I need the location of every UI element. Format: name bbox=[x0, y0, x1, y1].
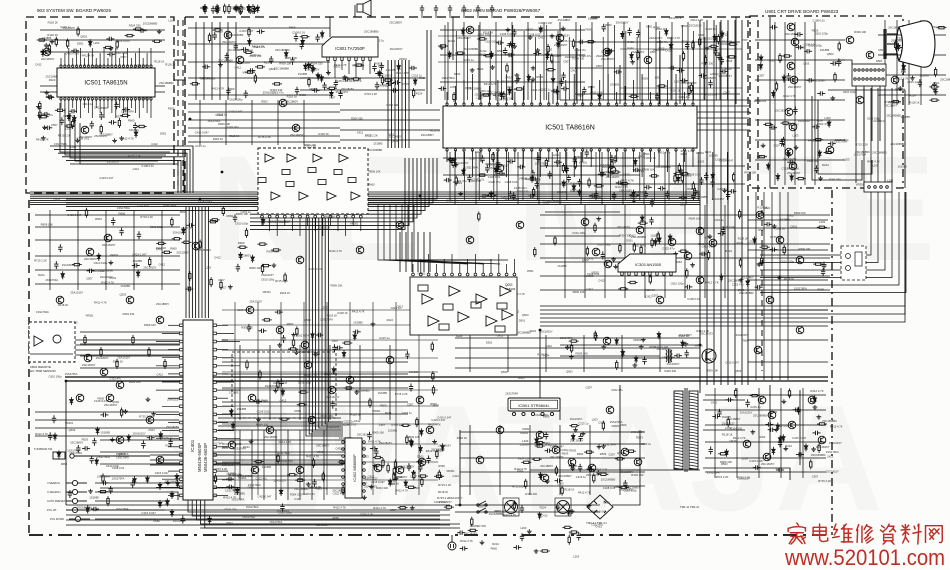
svg-text:R909 10K: R909 10K bbox=[144, 323, 156, 327]
svg-text:1SS176FA: 1SS176FA bbox=[45, 278, 58, 282]
wire bbox=[239, 430, 241, 500]
diode in right mid section bbox=[720, 274, 724, 282]
transistor Q208 bbox=[796, 256, 804, 264]
wire pin stub bbox=[150, 99, 152, 118]
diode in tuner area bbox=[301, 38, 305, 46]
svg-text:R412 4.7K: R412 4.7K bbox=[333, 506, 346, 510]
diode in right mid section bbox=[668, 234, 672, 242]
wire bbox=[250, 158, 417, 218]
svg-text:R118 1K: R118 1K bbox=[671, 89, 681, 93]
resistor in above IC501 row bbox=[682, 51, 684, 61]
svg-text:C412: C412 bbox=[711, 401, 718, 405]
svg-text:C108 0.01: C108 0.01 bbox=[505, 180, 518, 184]
capacitor in h-drive section bbox=[594, 333, 598, 341]
wire bbox=[174, 59, 185, 61]
svg-text:2SC1868B0: 2SC1868B0 bbox=[227, 48, 242, 52]
wire bbox=[423, 232, 425, 272]
wire pin stub bbox=[217, 413, 240, 415]
capacitor in bottom left rows bbox=[181, 516, 185, 524]
wire pin stub bbox=[217, 349, 228, 351]
wire bbox=[30, 344, 180, 346]
capacitor in flyback right section bbox=[796, 452, 804, 456]
svg-text:2SA1015Y: 2SA1015Y bbox=[456, 161, 469, 165]
capacitor in tuner area bbox=[257, 29, 265, 33]
wire bbox=[719, 22, 721, 100]
resistor in top-left board upper bbox=[152, 40, 162, 42]
svg-text:2CM1 TA8859P: 2CM1 TA8859P bbox=[268, 220, 290, 224]
capacitor in center deflection bbox=[418, 464, 422, 472]
ground bbox=[256, 417, 261, 421]
wire bbox=[66, 160, 181, 193]
wire pin stub bbox=[83, 58, 85, 66]
resistor in left mid section bbox=[222, 206, 224, 216]
svg-text:1SS176FA: 1SS176FA bbox=[248, 483, 261, 487]
diode in center deflection bbox=[281, 388, 285, 396]
svg-text:R909 10K: R909 10K bbox=[744, 170, 756, 174]
resistor in above IC501 row bbox=[546, 69, 556, 71]
ground bbox=[371, 322, 376, 326]
svg-text:R909 10K: R909 10K bbox=[236, 212, 249, 216]
svg-text:R224: R224 bbox=[764, 206, 771, 210]
capacitor in bottom left rows bbox=[109, 486, 113, 494]
svg-text:IC801 TA7250P: IC801 TA7250P bbox=[335, 46, 365, 51]
svg-text:1SS176FA: 1SS176FA bbox=[465, 166, 478, 170]
svg-text:2SC1815Y: 2SC1815Y bbox=[166, 425, 179, 429]
ground bbox=[480, 540, 485, 544]
svg-text:R412 4.7K: R412 4.7K bbox=[121, 137, 134, 141]
diode in h-drive section bbox=[681, 340, 685, 348]
wire pin stub bbox=[531, 150, 533, 172]
capacitor in IC801 support bbox=[306, 63, 314, 67]
diode in pre-amp section bbox=[404, 480, 408, 488]
svg-text:VR301: VR301 bbox=[65, 421, 74, 425]
wire pin stub bbox=[590, 86, 592, 104]
svg-text:2SC1880Y: 2SC1880Y bbox=[238, 254, 251, 258]
svg-text:IC501 TA8616N: IC501 TA8616N bbox=[545, 125, 595, 132]
capacitor in right mid section bbox=[769, 247, 777, 251]
transistor Q236 bbox=[856, 96, 864, 104]
svg-text:C610 100p: C610 100p bbox=[106, 464, 120, 468]
wire bbox=[66, 509, 450, 511]
ground bbox=[527, 529, 532, 533]
wire pin stub bbox=[217, 381, 234, 383]
wire bbox=[703, 429, 745, 431]
wire pin stub bbox=[573, 150, 575, 177]
wire pin stub bbox=[412, 264, 414, 273]
capacitor in bottom left rows bbox=[101, 481, 109, 485]
wire bbox=[755, 39, 845, 41]
transistor Q149 bbox=[818, 436, 826, 444]
capacitor in flyback right section bbox=[709, 446, 713, 454]
ground bbox=[757, 262, 762, 266]
resistor in below IC501 row bbox=[447, 159, 457, 161]
svg-text:R118 1K: R118 1K bbox=[280, 291, 290, 295]
diode in flyback right section bbox=[804, 443, 808, 451]
transistor Q227 bbox=[156, 456, 164, 464]
wire bbox=[771, 192, 773, 380]
svg-text:C507: C507 bbox=[774, 144, 781, 148]
resistor in bottom center bbox=[568, 535, 570, 545]
svg-text:C108 0.01: C108 0.01 bbox=[63, 114, 76, 118]
svg-text:C610 100p: C610 100p bbox=[94, 261, 108, 265]
capacitor in IC801 support bbox=[386, 81, 394, 85]
diode in left mid section bbox=[182, 227, 186, 235]
svg-text:R224: R224 bbox=[681, 152, 688, 156]
resistor in CRT board interior bbox=[838, 41, 840, 51]
capacitor in below IC501 row bbox=[485, 165, 489, 173]
svg-text:TA8403: TA8403 bbox=[505, 287, 516, 291]
resistor in pre-amp section bbox=[398, 507, 408, 509]
capacitor in tuner area bbox=[247, 68, 255, 72]
capacitor in above IC501 row bbox=[668, 66, 676, 70]
wire pin stub bbox=[531, 80, 533, 104]
wire bbox=[35, 419, 179, 421]
svg-text:R118 1K: R118 1K bbox=[656, 27, 666, 31]
capacitor in above IC501 row bbox=[699, 73, 707, 77]
wire pin stub bbox=[138, 99, 140, 118]
wire bbox=[204, 207, 206, 318]
svg-text:2SC1815Y: 2SC1815Y bbox=[689, 24, 702, 28]
resistor in center deflection bbox=[394, 459, 396, 469]
capacitor in above IC501 row bbox=[720, 57, 724, 65]
transistor Q105 bbox=[292, 124, 300, 132]
wire bbox=[454, 152, 456, 204]
resistor in below IC501 row bbox=[545, 158, 547, 168]
wire bus bbox=[540, 309, 828, 311]
wire bbox=[705, 394, 826, 396]
wire bbox=[705, 409, 826, 411]
wire pin stub bbox=[360, 218, 362, 231]
resistor in power supply section bbox=[626, 450, 636, 452]
wire bbox=[66, 524, 450, 526]
speaker SP901 bbox=[357, 0, 371, 16]
wire bbox=[30, 339, 180, 341]
svg-text:2SC1868B0: 2SC1868B0 bbox=[196, 248, 211, 252]
svg-text:Q503: Q503 bbox=[120, 292, 127, 296]
capacitor in below IC501 row bbox=[610, 155, 614, 163]
wire pin stub bbox=[168, 494, 179, 496]
svg-text:C415 0.047: C415 0.047 bbox=[431, 418, 445, 422]
transistor Q124 bbox=[192, 242, 200, 250]
svg-text:C215 1u: C215 1u bbox=[641, 442, 652, 446]
svg-text:R412 4.7K: R412 4.7K bbox=[94, 301, 107, 305]
wire pin stub bbox=[314, 218, 316, 231]
svg-text:1SS176FA: 1SS176FA bbox=[826, 450, 839, 454]
svg-text:1S1885: 1S1885 bbox=[901, 115, 911, 119]
ground bbox=[515, 73, 520, 77]
svg-text:2SA1015Y: 2SA1015Y bbox=[631, 50, 645, 54]
transistor Q114 bbox=[785, 108, 793, 116]
svg-text:R715 2.2K: R715 2.2K bbox=[139, 414, 152, 418]
resistor in top-left board left edge bbox=[39, 101, 41, 111]
resistor in bottom center bbox=[562, 526, 572, 528]
wire pin stub bbox=[490, 259, 492, 273]
diode in CRT board interior bbox=[790, 174, 794, 182]
ground bbox=[570, 509, 575, 513]
ground bbox=[597, 445, 602, 449]
svg-text:1SS176FA: 1SS176FA bbox=[277, 451, 290, 455]
ground bbox=[273, 389, 278, 393]
capacitor in tuner area bbox=[213, 32, 217, 40]
svg-text:Q503: Q503 bbox=[304, 318, 311, 322]
diode in below IC501 row bbox=[578, 189, 582, 197]
resistor in below IC501 row bbox=[620, 183, 630, 185]
svg-text:R224: R224 bbox=[737, 241, 744, 245]
capacitor in top-left board lower bbox=[133, 123, 137, 131]
wire bbox=[329, 17, 331, 37]
wire bbox=[703, 22, 705, 100]
ground bbox=[37, 114, 42, 118]
ground bbox=[75, 138, 80, 142]
svg-text:C322 47u: C322 47u bbox=[732, 283, 744, 287]
svg-text:R660: R660 bbox=[698, 33, 705, 37]
wire bbox=[784, 22, 786, 185]
resistor in below IC501 row bbox=[452, 158, 454, 168]
svg-text:1S1885: 1S1885 bbox=[588, 17, 598, 21]
diode in above IC501 row bbox=[713, 34, 717, 42]
svg-text:2SC1868B0: 2SC1868B0 bbox=[631, 235, 647, 239]
wire bbox=[748, 339, 828, 341]
wire bbox=[495, 22, 497, 100]
capacitor in flyback right section bbox=[753, 465, 761, 469]
ground bbox=[316, 73, 321, 77]
wire bbox=[188, 500, 440, 512]
wire pin stub bbox=[217, 357, 234, 359]
svg-text:IC402 M58655P: IC402 M58655P bbox=[353, 454, 357, 482]
resistor in top-left board lower bbox=[118, 118, 120, 128]
resistor in top-left board upper bbox=[133, 28, 143, 30]
diode in above IC501 row bbox=[621, 31, 625, 39]
svg-text:Q503: Q503 bbox=[478, 505, 485, 509]
diode in center deflection bbox=[409, 438, 413, 446]
diode in CRT board interior bbox=[827, 120, 831, 128]
svg-text:Q503: Q503 bbox=[681, 24, 688, 28]
diode in below IC501 row bbox=[462, 168, 466, 176]
svg-text:C412: C412 bbox=[587, 257, 594, 261]
resistor in power supply section bbox=[535, 441, 545, 443]
svg-text:1S1885: 1S1885 bbox=[722, 415, 732, 419]
transistor Q130 bbox=[308, 416, 316, 424]
wire pin stub bbox=[322, 218, 324, 236]
wire bbox=[235, 22, 237, 100]
wire bbox=[287, 430, 289, 500]
svg-text:C108 0.01: C108 0.01 bbox=[488, 175, 501, 179]
svg-text:C507: C507 bbox=[742, 38, 749, 42]
resistor in center deflection bbox=[277, 454, 279, 464]
diode in left mid section bbox=[239, 252, 243, 260]
ground bbox=[535, 48, 540, 52]
wire bbox=[920, 20, 922, 105]
resistor in power supply section bbox=[619, 486, 629, 488]
resistor in h-drive section bbox=[594, 331, 596, 341]
capacitor in above IC501 row bbox=[636, 30, 640, 38]
svg-text:C322 47u: C322 47u bbox=[41, 113, 53, 117]
svg-text:2SC1815Y: 2SC1815Y bbox=[554, 43, 568, 47]
transistor Q237 bbox=[826, 146, 834, 154]
svg-text:C108 0.01: C108 0.01 bbox=[812, 19, 825, 23]
svg-text:1S1885: 1S1885 bbox=[557, 190, 567, 194]
resistor in main right edge bbox=[891, 100, 901, 102]
capacitor in CRT board interior bbox=[793, 106, 797, 114]
svg-text:2SA1015Y: 2SA1015Y bbox=[829, 441, 842, 445]
wire bbox=[559, 398, 561, 420]
wire bbox=[205, 500, 440, 528]
wire bbox=[755, 192, 757, 380]
svg-text:C215 1u: C215 1u bbox=[584, 156, 595, 160]
resistor in power supply section bbox=[598, 473, 608, 475]
diode in above IC501 row bbox=[527, 74, 531, 82]
transistor Q157 bbox=[608, 166, 616, 174]
svg-text:C507: C507 bbox=[86, 277, 93, 281]
transistor Q153 bbox=[396, 466, 404, 474]
svg-text:Q503: Q503 bbox=[769, 58, 776, 62]
svg-text:C610 100p: C610 100p bbox=[229, 98, 243, 102]
resistor in tuner area bbox=[213, 29, 223, 31]
capacitor in below IC501 row bbox=[598, 172, 606, 176]
ground bbox=[277, 343, 282, 347]
capacitor in left of IC401 bbox=[48, 432, 52, 440]
transistor Q221 bbox=[296, 466, 304, 474]
diode in top-left board upper bbox=[88, 39, 92, 47]
capacitor in center deflection bbox=[275, 310, 283, 314]
resistor in main right edge bbox=[934, 67, 936, 77]
capacitor in above IC501 row bbox=[577, 40, 585, 44]
wire pin stub bbox=[352, 218, 354, 226]
svg-text:2SA1015Y: 2SA1015Y bbox=[249, 300, 262, 304]
capacitor in flyback right section bbox=[726, 398, 734, 402]
svg-text:2SC1868B0: 2SC1868B0 bbox=[368, 148, 383, 152]
resistor in CRT board interior bbox=[775, 81, 777, 91]
capacitor in above IC501 row bbox=[512, 29, 516, 37]
svg-text:2SC1815Y: 2SC1815Y bbox=[143, 266, 156, 270]
ground bbox=[570, 466, 575, 470]
resistor in power supply section bbox=[525, 479, 527, 489]
svg-text:1S1885: 1S1885 bbox=[120, 284, 130, 288]
wire bbox=[203, 22, 205, 100]
svg-text:R118 1K: R118 1K bbox=[706, 27, 716, 31]
resistor in above IC501 row bbox=[629, 95, 639, 97]
svg-text:C108 0.01: C108 0.01 bbox=[141, 164, 154, 168]
svg-text:1SS176FA: 1SS176FA bbox=[36, 310, 49, 314]
svg-text:D501: D501 bbox=[626, 238, 633, 242]
resistor in flyback right section bbox=[817, 423, 827, 425]
wire bbox=[624, 205, 626, 298]
wire pin stub bbox=[103, 48, 105, 66]
svg-text:2SC1868B0: 2SC1868B0 bbox=[143, 22, 158, 26]
wire bbox=[429, 232, 431, 272]
wire pin stub bbox=[607, 150, 609, 177]
svg-text:R412 4.7K: R412 4.7K bbox=[306, 455, 319, 459]
wire pin stub bbox=[217, 405, 234, 407]
resistor in left mid section bbox=[220, 280, 222, 290]
resistor in flyback right section bbox=[788, 388, 790, 398]
ground bbox=[470, 68, 475, 72]
svg-text:VR301: VR301 bbox=[317, 450, 326, 454]
transistor Q551 horizontal output bbox=[702, 349, 716, 363]
svg-text:R118 1K: R118 1K bbox=[389, 482, 400, 486]
resistor in tuner area bbox=[254, 74, 256, 84]
svg-text:C415 0.047: C415 0.047 bbox=[722, 225, 736, 229]
svg-text:R118 1K: R118 1K bbox=[457, 436, 467, 440]
diode in tuner area bbox=[284, 50, 288, 58]
resistor in flyback right section bbox=[750, 394, 760, 396]
resistor in left mid section bbox=[156, 242, 166, 244]
wire pin stub bbox=[217, 341, 240, 343]
wire bbox=[545, 211, 620, 213]
wire bbox=[198, 207, 200, 318]
capacitor in top-left board lower bbox=[122, 107, 130, 111]
svg-text:L203: L203 bbox=[748, 240, 754, 244]
capacitor in main right edge bbox=[901, 67, 905, 75]
svg-text:2SA1015Y: 2SA1015Y bbox=[712, 197, 725, 201]
wire bbox=[703, 468, 790, 480]
svg-text:D501: D501 bbox=[486, 341, 493, 345]
resistor in bottom left rows bbox=[107, 496, 109, 506]
transistor Q216 bbox=[346, 376, 354, 384]
capacitor in flyback right section bbox=[765, 422, 773, 426]
ground bbox=[119, 136, 124, 140]
capacitor in below IC501 row bbox=[530, 177, 538, 181]
wire bbox=[705, 457, 826, 459]
wire pin stub bbox=[217, 454, 234, 456]
wire pin stub bbox=[471, 74, 473, 104]
svg-text:C610 100p: C610 100p bbox=[235, 222, 249, 226]
svg-text:R909 10K: R909 10K bbox=[799, 247, 811, 251]
wire pin stub bbox=[284, 218, 286, 226]
resistor in left mid section bbox=[210, 219, 220, 221]
svg-text:L203: L203 bbox=[93, 41, 99, 45]
wire mains2 bbox=[455, 511, 600, 513]
diode in main right edge bbox=[902, 63, 906, 71]
svg-text:R412 4.7K: R412 4.7K bbox=[368, 440, 381, 444]
ground bbox=[596, 217, 601, 221]
diode in below IC501 row bbox=[711, 172, 715, 180]
svg-text:C215 1u: C215 1u bbox=[60, 25, 71, 29]
resistor in above IC501 row bbox=[481, 94, 491, 96]
wire bbox=[539, 330, 541, 400]
ground bbox=[151, 412, 156, 416]
diode in left of IC401 bbox=[159, 431, 163, 439]
svg-text:2SC1880Y: 2SC1880Y bbox=[540, 464, 553, 468]
svg-text:C415 0.047: C415 0.047 bbox=[273, 381, 288, 385]
resistor in center deflection bbox=[418, 475, 428, 477]
transistor Q101 bbox=[81, 126, 89, 134]
svg-text:C415 0.047: C415 0.047 bbox=[195, 130, 209, 134]
wire pin stub bbox=[459, 264, 461, 273]
ground bbox=[516, 77, 521, 81]
svg-text:R503: R503 bbox=[543, 201, 550, 205]
ground bbox=[811, 447, 816, 451]
svg-text:2SA1015Y: 2SA1015Y bbox=[718, 42, 731, 46]
resistor in below IC501 row bbox=[588, 178, 590, 188]
svg-text:R660: R660 bbox=[620, 423, 627, 427]
svg-text:R412 4.7K: R412 4.7K bbox=[329, 249, 342, 253]
wire bbox=[469, 425, 471, 495]
wire bbox=[35, 435, 179, 437]
svg-text:2SC1815Y: 2SC1815Y bbox=[932, 25, 945, 29]
resistor in below IC501 row bbox=[692, 181, 694, 191]
wire pin stub bbox=[107, 99, 109, 108]
svg-text:R118 1K: R118 1K bbox=[705, 357, 715, 361]
resistor in power supply section bbox=[602, 421, 604, 431]
svg-text:C507: C507 bbox=[757, 263, 764, 267]
wire bbox=[769, 17, 771, 188]
wire bbox=[40, 29, 165, 31]
svg-text:C322 47u: C322 47u bbox=[817, 122, 830, 126]
capacitor in center deflection bbox=[281, 335, 285, 343]
svg-text:2SA1015Y: 2SA1015Y bbox=[449, 496, 463, 500]
svg-text:C412: C412 bbox=[586, 287, 593, 291]
